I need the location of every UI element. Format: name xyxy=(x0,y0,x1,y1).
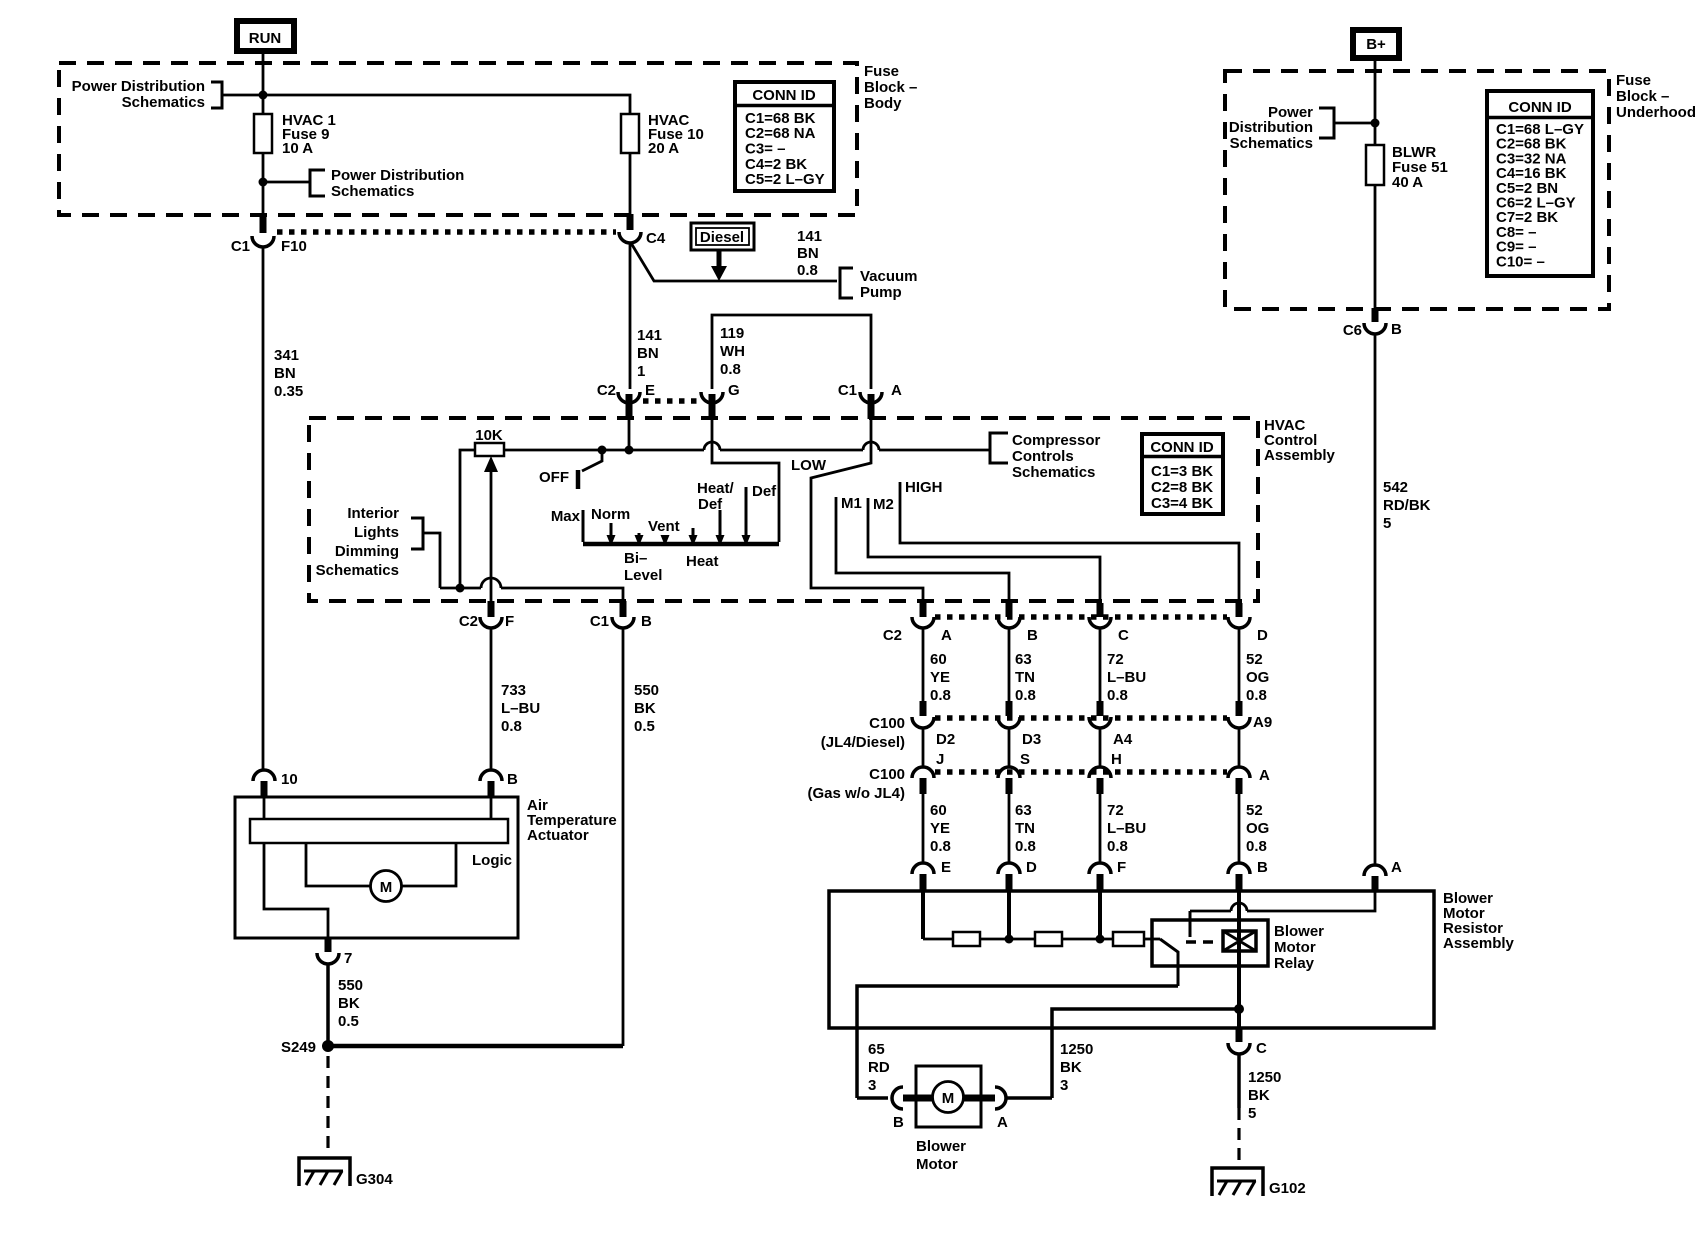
svg-text:C: C xyxy=(1118,627,1129,644)
rotary mode switch base xyxy=(583,487,779,546)
svg-text:D: D xyxy=(1026,859,1037,876)
wire dashed to ground xyxy=(326,1056,329,1153)
svg-text:OFF: OFF xyxy=(539,469,569,486)
svg-text:Blower: Blower xyxy=(916,1138,966,1155)
wire 542 RD/BK 5 xyxy=(1375,334,1431,865)
svg-text:C2: C2 xyxy=(883,627,902,644)
wire to motor pin B xyxy=(857,1096,888,1100)
connector pin D (row1) xyxy=(1228,603,1268,644)
relay coil xyxy=(1223,931,1256,951)
svg-text:52: 52 xyxy=(1246,802,1263,819)
svg-text:TN: TN xyxy=(1015,669,1035,686)
fuse F51 BLWR xyxy=(1366,144,1448,191)
svg-text:141: 141 xyxy=(797,228,822,245)
wire to second schematics bracket xyxy=(263,181,310,184)
wire logic to pin 7 xyxy=(264,843,328,938)
svg-text:B: B xyxy=(1027,627,1038,644)
svg-text:Diesel: Diesel xyxy=(700,229,744,246)
label 141 BN 0.8 xyxy=(797,228,822,279)
wire 65 RD 3 xyxy=(868,1041,890,1094)
svg-text:RD: RD xyxy=(868,1059,890,1076)
Blower Motor box xyxy=(916,1066,981,1173)
svg-text:RD/BK: RD/BK xyxy=(1383,497,1431,514)
svg-text:L–BU: L–BU xyxy=(501,700,540,717)
svg-text:Fuse: Fuse xyxy=(1616,72,1651,89)
svg-text:E: E xyxy=(645,382,655,399)
connector pin E (resistor assembly) xyxy=(912,859,951,891)
wire 341 BN 0.35 xyxy=(263,247,303,770)
wire R3 to relay common xyxy=(1144,938,1160,941)
svg-text:Distribution: Distribution xyxy=(1229,119,1313,136)
svg-text:0.8: 0.8 xyxy=(1246,838,1267,855)
svg-text:542: 542 xyxy=(1383,479,1408,496)
svg-text:1250: 1250 xyxy=(1248,1069,1281,1086)
CONN ID table (fuse block underhood) xyxy=(1487,91,1593,276)
svg-text:119: 119 xyxy=(720,325,744,342)
connector C100 pin H xyxy=(1089,728,1122,794)
svg-text:F10: F10 xyxy=(281,238,307,255)
blower motor M xyxy=(933,1082,964,1113)
svg-text:5: 5 xyxy=(1248,1105,1256,1122)
wire LOW from pin A xyxy=(791,419,923,601)
wire bus to Fuse 10 xyxy=(222,95,630,114)
svg-text:C4: C4 xyxy=(646,230,666,247)
svg-text:F: F xyxy=(505,613,514,630)
svg-text:10: 10 xyxy=(281,771,298,788)
dotted line E to G xyxy=(643,398,699,404)
svg-text:0.8: 0.8 xyxy=(930,687,951,704)
svg-text:63: 63 xyxy=(1015,651,1032,668)
svg-text:550: 550 xyxy=(338,977,363,994)
svg-text:A: A xyxy=(891,382,902,399)
connector row C2 pins A B C D xyxy=(935,614,1227,620)
label Def xyxy=(752,483,777,500)
node junction E on bus xyxy=(625,446,634,455)
svg-text:Motor: Motor xyxy=(916,1156,958,1173)
wire 63 TN 0.8 upper xyxy=(1009,628,1036,704)
wire switch feed bus with hops xyxy=(504,442,990,450)
svg-text:BN: BN xyxy=(637,345,659,362)
svg-text:M1: M1 xyxy=(841,495,862,512)
resistor 10K blower speed xyxy=(475,427,504,456)
svg-text:C1: C1 xyxy=(590,613,609,630)
svg-text:52: 52 xyxy=(1246,651,1263,668)
svg-text:0.8: 0.8 xyxy=(797,262,818,279)
connector C6 pin B xyxy=(1343,308,1402,339)
dotted harness line C1 to C4 xyxy=(277,229,616,235)
svg-text:D3: D3 xyxy=(1022,731,1041,748)
svg-text:Compressor: Compressor xyxy=(1012,432,1101,449)
svg-text:Block –: Block – xyxy=(1616,88,1669,105)
svg-text:0.8: 0.8 xyxy=(1015,687,1036,704)
connector C2 pin E xyxy=(597,382,655,419)
ground G102 xyxy=(1212,1168,1306,1197)
svg-text:Block –: Block – xyxy=(864,79,917,96)
label Heat/Def xyxy=(697,480,735,513)
node junction D on chain xyxy=(1005,935,1014,944)
wire 10K left leg xyxy=(460,450,475,588)
svg-text:0.8: 0.8 xyxy=(501,718,522,735)
connector C100 pin A9 xyxy=(1228,701,1272,731)
bracket Compressor Controls Schematics xyxy=(990,432,1101,481)
wire pin F into chain xyxy=(1098,889,1102,939)
svg-text:Bi–: Bi– xyxy=(624,550,647,567)
svg-text:S249: S249 xyxy=(281,1039,316,1056)
svg-text:F: F xyxy=(1117,859,1126,876)
connector pin 7 xyxy=(317,938,352,967)
switch OFF position xyxy=(539,450,602,489)
svg-text:B: B xyxy=(893,1114,904,1131)
svg-text:550: 550 xyxy=(634,682,659,699)
svg-text:C10= –: C10= – xyxy=(1496,253,1545,270)
connector row C100 (JL4/Diesel) xyxy=(821,715,1227,751)
wire pin B through relay coil to junction xyxy=(1237,889,1241,1028)
svg-text:733: 733 xyxy=(501,682,526,699)
wire 550 BK 0.5 lower xyxy=(328,964,363,1046)
svg-text:3: 3 xyxy=(1060,1077,1068,1094)
svg-text:0.8: 0.8 xyxy=(1107,687,1128,704)
svg-text:L–BU: L–BU xyxy=(1107,669,1146,686)
svg-text:L–BU: L–BU xyxy=(1107,820,1146,837)
svg-text:Vent: Vent xyxy=(648,518,680,535)
label Vent xyxy=(648,518,680,535)
label Heat xyxy=(686,553,719,570)
connector pin 10 (actuator) xyxy=(253,770,298,797)
wire G pin to rotary switch common xyxy=(712,419,779,542)
connector pin B (resistor assembly) xyxy=(1228,859,1268,891)
Fuse Block - Underhood dashed enclosure xyxy=(1225,71,1609,309)
svg-text:A: A xyxy=(1259,767,1270,784)
node junction 1250 splice xyxy=(1234,1004,1244,1014)
svg-text:Relay: Relay xyxy=(1274,955,1315,972)
svg-text:OG: OG xyxy=(1246,820,1269,837)
svg-text:C3=4 BK: C3=4 BK xyxy=(1151,495,1213,512)
Blower Motor Resistor Assembly box xyxy=(829,890,1515,1028)
Fuse Block - Body dashed enclosure xyxy=(59,63,857,215)
svg-text:341: 341 xyxy=(274,347,299,364)
relay switch blade xyxy=(1160,939,1178,986)
svg-text:Heat/: Heat/ xyxy=(697,480,735,497)
svg-text:Underhood: Underhood xyxy=(1616,104,1696,121)
wire 52 OG 0.8 lower xyxy=(1239,794,1269,864)
wire R2 to R3 xyxy=(1062,938,1113,941)
svg-text:Lights: Lights xyxy=(354,524,399,541)
svg-text:B: B xyxy=(1257,859,1268,876)
wire R1 to R2 xyxy=(980,938,1035,941)
svg-text:B: B xyxy=(1391,321,1402,338)
svg-text:0.8: 0.8 xyxy=(1015,838,1036,855)
wire pin A to relay contact with hop xyxy=(1190,891,1375,911)
resistor R1 xyxy=(953,932,980,946)
wire M1 xyxy=(836,495,1009,601)
svg-text:Level: Level xyxy=(624,567,662,584)
svg-text:E: E xyxy=(941,859,951,876)
connector C100 pin D2 xyxy=(912,701,955,748)
wire 63 TN 0.8 lower xyxy=(1009,794,1036,864)
svg-text:Def: Def xyxy=(698,496,723,513)
svg-text:Schematics: Schematics xyxy=(122,94,205,111)
svg-text:C2: C2 xyxy=(597,382,616,399)
wire 1250 BK 5 xyxy=(1239,1054,1281,1122)
svg-text:J: J xyxy=(936,751,944,768)
svg-text:60: 60 xyxy=(930,802,947,819)
svg-text:Assembly: Assembly xyxy=(1264,447,1336,464)
svg-text:LOW: LOW xyxy=(791,457,827,474)
svg-text:Blower: Blower xyxy=(1274,923,1324,940)
svg-text:C2=68 NA: C2=68 NA xyxy=(745,125,816,142)
node junction F on chain xyxy=(1096,935,1105,944)
svg-text:60: 60 xyxy=(930,651,947,668)
svg-text:(Gas w/o JL4): (Gas w/o JL4) xyxy=(807,785,905,802)
svg-text:40 A: 40 A xyxy=(1392,174,1423,191)
wire 72 L-BU 0.8 lower xyxy=(1100,794,1146,864)
connector pin B (row1) xyxy=(998,603,1038,644)
connector C100 pin A xyxy=(1228,728,1270,794)
Blower Motor Relay box xyxy=(1152,920,1324,972)
relay fixed contact xyxy=(1189,911,1192,937)
Diesel option box xyxy=(691,223,754,281)
RUN ignition feed box xyxy=(237,21,294,51)
svg-text:Controls: Controls xyxy=(1012,448,1074,465)
svg-text:Assembly: Assembly xyxy=(1443,935,1515,952)
connector C100 pin S xyxy=(998,728,1030,794)
svg-text:CONN ID: CONN ID xyxy=(752,87,816,104)
wire C4 to vacuum pump xyxy=(631,243,837,281)
HVAC Control Assembly dashed enclosure xyxy=(309,418,1258,601)
label Norm xyxy=(591,506,630,523)
svg-text:S: S xyxy=(1020,751,1030,768)
svg-text:Schematics: Schematics xyxy=(1012,464,1095,481)
connector row C100 (Gas w/o JL4) xyxy=(807,766,1227,802)
svg-text:Def: Def xyxy=(752,483,777,500)
svg-text:BK: BK xyxy=(634,700,656,717)
wire motor A to 1250 BK 3 leg xyxy=(1006,1096,1052,1100)
wire bottom bus to C1 B with hop xyxy=(440,578,623,601)
wire junction to blower motor A xyxy=(1052,1009,1239,1098)
svg-text:0.5: 0.5 xyxy=(634,718,655,735)
svg-text:G: G xyxy=(728,382,740,399)
connector pin A (resistor assembly right) xyxy=(1364,859,1402,891)
svg-text:Heat: Heat xyxy=(686,553,719,570)
connector pin F (resistor assembly) xyxy=(1089,859,1126,891)
svg-text:0.8: 0.8 xyxy=(720,361,741,378)
wire 733 L-BU 0.8 xyxy=(491,628,540,770)
wire Fuse 10 to connector C4 xyxy=(629,153,632,216)
svg-text:B: B xyxy=(641,613,652,630)
svg-text:20 A: 20 A xyxy=(648,140,679,157)
bracket Power Distribution Schematics (left) xyxy=(72,78,222,111)
wire pinB to logic bar xyxy=(490,797,493,819)
svg-text:Body: Body xyxy=(864,95,902,112)
svg-text:65: 65 xyxy=(868,1041,885,1058)
svg-text:CONN ID: CONN ID xyxy=(1508,99,1572,116)
resistor R2 xyxy=(1035,932,1062,946)
svg-text:0.8: 0.8 xyxy=(1246,687,1267,704)
wire fuse 51 to C6 xyxy=(1374,185,1377,310)
connector C2 pin A (resistor feed) xyxy=(883,603,952,644)
CONN ID table (HVAC control) xyxy=(1142,434,1223,514)
svg-text:0.5: 0.5 xyxy=(338,1013,359,1030)
svg-text:A9: A9 xyxy=(1253,714,1272,731)
svg-text:YE: YE xyxy=(930,669,950,686)
svg-text:C: C xyxy=(1256,1040,1267,1057)
svg-text:1250: 1250 xyxy=(1060,1041,1093,1058)
svg-text:1: 1 xyxy=(637,363,645,380)
svg-text:A: A xyxy=(997,1114,1008,1131)
svg-text:7: 7 xyxy=(344,950,352,967)
wire interior lights dimming feed xyxy=(423,533,440,588)
bracket Interior Lights Dimming Schematics xyxy=(316,505,423,579)
label Fuse Block - Underhood xyxy=(1616,72,1696,121)
svg-text:D: D xyxy=(1257,627,1268,644)
ground G304 xyxy=(299,1158,393,1188)
svg-text:M: M xyxy=(942,1090,955,1107)
svg-text:Power Distribution: Power Distribution xyxy=(72,78,205,95)
node junction 10K leg on bottom bus xyxy=(456,584,465,593)
svg-text:Pump: Pump xyxy=(860,284,902,301)
fuse F9 HVAC 1 xyxy=(254,112,336,157)
svg-text:OG: OG xyxy=(1246,669,1269,686)
svg-text:C2: C2 xyxy=(459,613,478,630)
wire splice to C1 B leg xyxy=(328,1044,623,1049)
svg-text:HIGH: HIGH xyxy=(905,479,943,496)
connector pin C (ground lead) xyxy=(1228,1028,1267,1057)
potentiometer wiper arrow xyxy=(484,456,498,601)
connector C2 pin F xyxy=(459,601,514,630)
label Max xyxy=(551,508,581,525)
svg-text:Actuator: Actuator xyxy=(527,827,589,844)
relay actuating dashed link xyxy=(1186,940,1220,944)
svg-text:C3= –: C3= – xyxy=(745,141,785,158)
svg-text:0.8: 0.8 xyxy=(930,838,951,855)
svg-text:WH: WH xyxy=(720,343,745,360)
wire to power distribution bracket xyxy=(1334,122,1375,125)
connector C1 pin B xyxy=(590,601,652,630)
svg-text:5: 5 xyxy=(1383,515,1391,532)
actuator motor M xyxy=(306,843,456,902)
node junction B+ tap xyxy=(1371,119,1380,128)
svg-text:D2: D2 xyxy=(936,731,955,748)
wire dashed to ground G102 xyxy=(1237,1108,1240,1163)
svg-text:A: A xyxy=(941,627,952,644)
svg-text:C100: C100 xyxy=(869,766,905,783)
svg-text:10K: 10K xyxy=(475,427,503,444)
svg-text:BK: BK xyxy=(338,995,360,1012)
svg-text:YE: YE xyxy=(930,820,950,837)
svg-text:A: A xyxy=(1391,859,1402,876)
node junction at power distribution tap xyxy=(259,91,268,100)
connector pin C (row1) xyxy=(1089,603,1129,644)
bracket Power Distribution Schematics (second) xyxy=(310,167,464,200)
wire 550 BK 0.5 upper xyxy=(623,628,659,1046)
wire 52 OG 0.8 upper xyxy=(1239,628,1269,704)
label HVAC Control Assembly xyxy=(1264,417,1336,464)
svg-text:BK: BK xyxy=(1060,1059,1082,1076)
connector motor pin A xyxy=(963,1087,1008,1131)
wire 60 YE 0.8 upper xyxy=(923,628,951,704)
svg-text:Motor: Motor xyxy=(1274,939,1316,956)
wire relay blade to blower motor B xyxy=(857,986,1178,1098)
wire 119 WH loop G to A xyxy=(712,315,871,389)
svg-text:RUN: RUN xyxy=(249,30,282,47)
svg-text:Schematics: Schematics xyxy=(1230,135,1313,152)
connector C100 pin A4 xyxy=(1089,701,1133,748)
connector C100 pin D3 xyxy=(998,701,1041,748)
svg-text:Schematics: Schematics xyxy=(316,562,399,579)
svg-text:M2: M2 xyxy=(873,496,894,513)
svg-text:C1: C1 xyxy=(231,238,250,255)
svg-text:Fuse: Fuse xyxy=(864,63,899,80)
wire RUN to Fuse 9 xyxy=(262,54,265,114)
resistor R3 xyxy=(1113,932,1144,946)
B+ battery feed box xyxy=(1353,30,1399,58)
svg-text:C2=8 BK: C2=8 BK xyxy=(1151,479,1213,496)
wire M2 xyxy=(868,496,1100,601)
CONN ID table (fuse block body) xyxy=(735,82,834,191)
svg-text:G102: G102 xyxy=(1269,1180,1306,1197)
svg-text:72: 72 xyxy=(1107,802,1124,819)
fuse F10 HVAC xyxy=(621,112,704,157)
svg-text:63: 63 xyxy=(1015,802,1032,819)
svg-text:Vacuum: Vacuum xyxy=(860,268,918,285)
wire 72 L-BU 0.8 upper xyxy=(1100,628,1146,704)
svg-text:C1=3 BK: C1=3 BK xyxy=(1151,463,1213,480)
svg-text:M: M xyxy=(380,879,393,896)
svg-text:Schematics: Schematics xyxy=(331,183,414,200)
wire pin10 to logic bar xyxy=(263,797,266,819)
connector C1 pin F10 xyxy=(231,214,307,255)
wire E pin to bus xyxy=(628,419,631,450)
svg-text:Max: Max xyxy=(551,508,581,525)
svg-text:BN: BN xyxy=(274,365,296,382)
connector pin G xyxy=(701,382,740,419)
svg-text:Interior: Interior xyxy=(347,505,399,522)
svg-text:(JL4/Diesel): (JL4/Diesel) xyxy=(821,734,905,751)
wire B+ to Fuse 51 xyxy=(1374,58,1377,145)
wire 141 BN 1 down to E xyxy=(630,243,662,389)
splice S249 xyxy=(281,1039,334,1056)
svg-text:BN: BN xyxy=(797,245,819,262)
bracket Vacuum Pump xyxy=(840,268,918,301)
connector pin B (actuator) xyxy=(480,770,518,797)
wire HIGH xyxy=(900,479,1239,601)
svg-text:C5=2 L–GY: C5=2 L–GY xyxy=(745,171,825,188)
svg-text:Logic: Logic xyxy=(472,852,512,869)
svg-text:72: 72 xyxy=(1107,651,1124,668)
svg-text:0.35: 0.35 xyxy=(274,383,303,400)
svg-text:0.8: 0.8 xyxy=(1107,838,1128,855)
connector C4 xyxy=(619,214,666,247)
svg-text:141: 141 xyxy=(637,327,662,344)
svg-text:TN: TN xyxy=(1015,820,1035,837)
svg-text:Power Distribution: Power Distribution xyxy=(331,167,464,184)
svg-text:C1: C1 xyxy=(838,382,857,399)
wire pin D into chain xyxy=(1007,889,1011,939)
connector C100 pin J xyxy=(912,728,944,794)
svg-text:C6: C6 xyxy=(1343,322,1362,339)
svg-text:B: B xyxy=(507,771,518,788)
svg-text:C100: C100 xyxy=(869,715,905,732)
wire 1250 BK 3 xyxy=(1060,1041,1093,1094)
svg-text:A4: A4 xyxy=(1113,731,1133,748)
Air Temperature Actuator box xyxy=(235,797,617,938)
bracket Power Distribution Schematics (B+) xyxy=(1229,104,1334,152)
svg-text:B+: B+ xyxy=(1366,36,1386,53)
wire Fuse 9 to connector C1 xyxy=(262,153,265,216)
svg-text:BK: BK xyxy=(1248,1087,1270,1104)
actuator logic bar xyxy=(250,819,512,869)
connector motor pin B xyxy=(892,1087,933,1131)
